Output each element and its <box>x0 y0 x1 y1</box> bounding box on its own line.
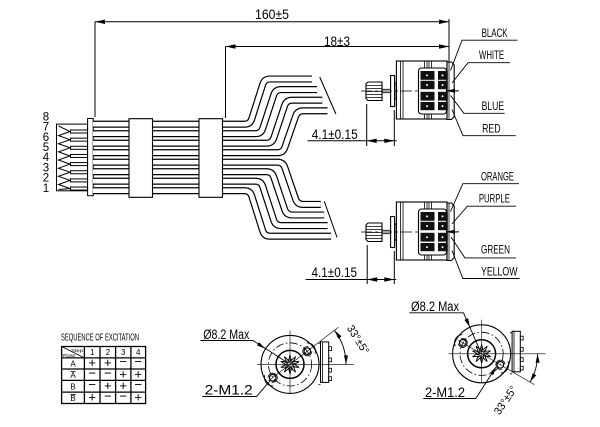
arrows 4.1 bottom <box>367 277 377 281</box>
svg-text:18±3: 18±3 <box>324 33 350 49</box>
svg-text:GREEN: GREEN <box>481 243 510 257</box>
svg-text:33°±5°: 33°±5° <box>344 323 371 356</box>
svg-text:4.1±0.15: 4.1±0.15 <box>312 265 358 280</box>
svg-text:YELLOW: YELLOW <box>481 265 518 279</box>
leader PURPLE <box>452 206 516 224</box>
front view left (motor 1) <box>257 327 354 393</box>
front view right (motor 2) <box>449 320 546 385</box>
centerline cross <box>257 330 354 393</box>
screw hole axis line <box>458 340 534 384</box>
cable clamp 2 <box>199 119 223 198</box>
body ear at hole A <box>501 361 509 373</box>
svg-text:RED: RED <box>482 122 501 136</box>
angle dimension arc 33°±5° <box>334 330 346 364</box>
leader WHITE <box>452 63 510 83</box>
svg-text:2-M1.2: 2-M1.2 <box>205 383 253 398</box>
overbars on row headers <box>71 372 76 395</box>
svg-text:1: 1 <box>43 183 49 195</box>
centerline cross <box>449 320 546 383</box>
leader ORANGE <box>451 184 520 212</box>
svg-text:2-M1.2: 2-M1.2 <box>425 385 465 400</box>
dim 4.1 bottom extension lines <box>367 245 394 284</box>
leader BLACK <box>451 40 518 70</box>
dimension 18±3 left extension line <box>225 47 227 119</box>
cable clamp 1 <box>129 119 153 198</box>
connector pins <box>71 130 88 133</box>
svg-text:SEQUENCE OF EXCITATION: SEQUENCE OF EXCITATION <box>61 333 139 344</box>
screw hole B M1.2 <box>460 340 467 347</box>
dimension 160±5 right extension line <box>448 19 450 63</box>
screw hole B M1.2 <box>269 374 276 381</box>
break line bottom bundle <box>324 201 337 237</box>
screw hole axis line <box>269 327 339 381</box>
bottom wire 5 outline <box>93 162 321 204</box>
svg-text:160±5: 160±5 <box>255 6 289 22</box>
svg-text:Phase: Phase <box>63 353 77 358</box>
bottom wire 8 outline <box>93 191 331 237</box>
svg-text:BLACK: BLACK <box>482 26 508 40</box>
body ear at hole B <box>265 375 274 386</box>
screw hole A M1.2 <box>497 362 504 369</box>
leader Ø8.2 right view <box>409 313 480 352</box>
svg-text:+: + <box>88 390 96 405</box>
table grid <box>62 347 146 404</box>
leader YELLOW <box>452 251 520 279</box>
arrows 4.1 top <box>367 139 377 143</box>
svg-text:BLUE: BLUE <box>482 99 505 113</box>
dim 4.1±0.15 top: line <box>308 140 397 142</box>
svg-text:33°±5°: 33°±5° <box>492 384 520 417</box>
arrowhead 160 left <box>95 20 105 24</box>
svg-text:ORANGE: ORANGE <box>481 170 514 184</box>
arrowhead 18 left <box>226 44 236 48</box>
top wire 2 outline <box>93 90 317 134</box>
svg-text:Ø8.2 Max: Ø8.2 Max <box>203 327 249 342</box>
svg-text:A: A <box>70 360 76 369</box>
motor 1 (top) side view <box>361 61 460 120</box>
svg-text:B: B <box>70 382 75 391</box>
connector housing <box>57 124 88 191</box>
svg-text:A: A <box>70 371 76 380</box>
connector end bar <box>88 119 94 196</box>
svg-text:4.1±0.15: 4.1±0.15 <box>312 127 358 142</box>
bottom wire 7 outline <box>93 181 328 225</box>
leader Ø8.2 left view <box>201 341 289 364</box>
leader GREEN <box>451 237 516 258</box>
top wire 3 outline <box>93 100 322 143</box>
svg-text:Ø8.2 Max: Ø8.2 Max <box>411 299 459 314</box>
leader 2-M1.2 left view <box>202 381 270 397</box>
dim 4.1 top extension lines <box>367 104 395 146</box>
body ear at hole B <box>455 335 463 347</box>
screw hole A M1.2 <box>304 348 311 355</box>
svg-text:B: B <box>70 394 75 403</box>
header diagonal <box>62 347 85 358</box>
svg-text:−: − <box>104 389 112 404</box>
svg-text:WHITE: WHITE <box>479 48 504 62</box>
top wire 1 outline <box>93 79 312 124</box>
svg-text:+: + <box>134 390 142 405</box>
svg-text:PURPLE: PURPLE <box>479 192 510 206</box>
angle dimension arc 33°±5° <box>530 354 538 382</box>
dimension 160±5 left extension line <box>94 22 96 117</box>
connector spring zigzag <box>59 126 71 190</box>
leader 2-M1.2 right view <box>423 368 495 399</box>
leader RED <box>452 110 516 136</box>
dim 4.1 bottom: line <box>306 279 397 281</box>
arrowhead 160 right <box>439 20 449 24</box>
bottom wire 6 outline <box>93 172 324 215</box>
break line top bundle <box>320 77 336 114</box>
svg-text:−: − <box>119 389 127 404</box>
dimension 160±5 line <box>95 21 449 23</box>
arrowhead 18 right <box>439 44 449 48</box>
motor 2 (bottom) side view <box>361 202 460 261</box>
body ear at hole A <box>307 343 316 354</box>
top wire 4 outline <box>93 111 328 153</box>
dimension 18±3 line <box>226 46 450 48</box>
leader BLUE <box>451 96 505 114</box>
pin numbers 8..1 <box>43 111 50 194</box>
